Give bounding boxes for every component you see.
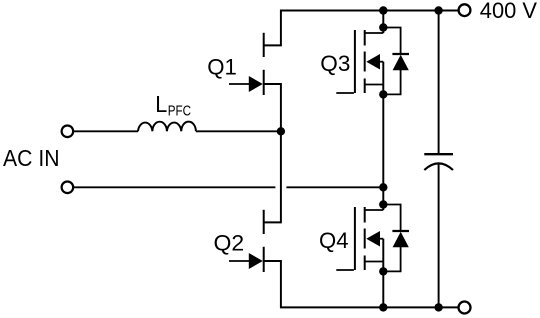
svg-text:PFC: PFC [168, 104, 191, 120]
svg-text:Q2: Q2 [214, 230, 245, 255]
svg-text:AC IN: AC IN [3, 145, 60, 171]
svg-text:400 V: 400 V [480, 0, 538, 23]
svg-text:L: L [155, 91, 167, 117]
svg-text:Q4: Q4 [319, 228, 349, 253]
svg-text:Q1: Q1 [207, 54, 237, 79]
svg-text:Q3: Q3 [320, 51, 350, 76]
